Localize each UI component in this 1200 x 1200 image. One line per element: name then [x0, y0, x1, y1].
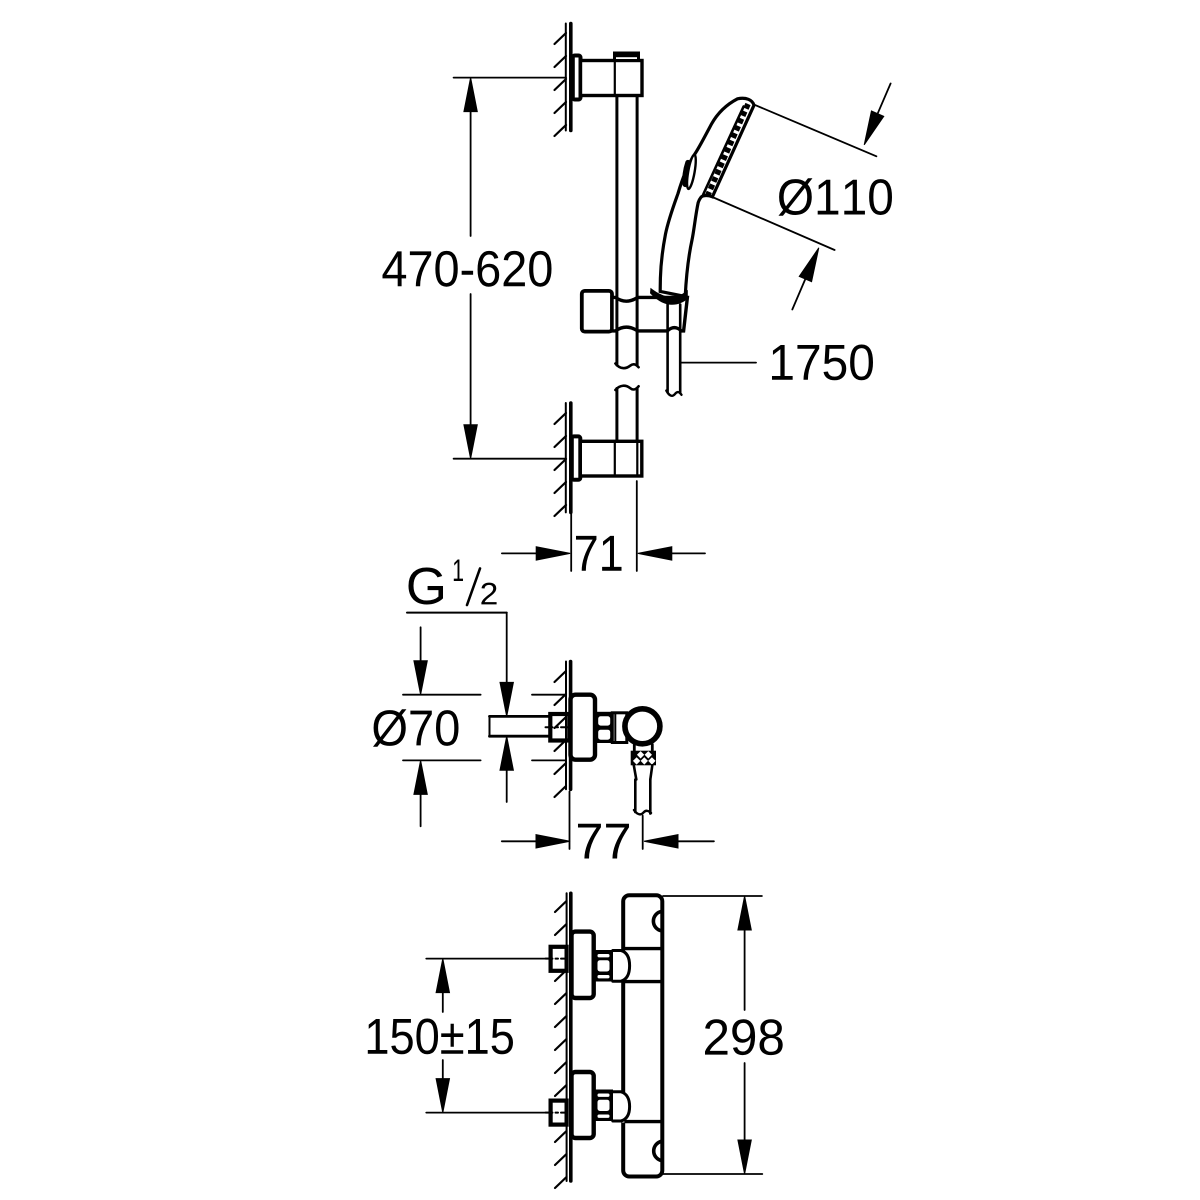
wall (thermostat) — [555, 893, 571, 1188]
elbow hex nut — [595, 712, 612, 743]
hose cone and hose — [634, 765, 653, 814]
rail top end cap — [615, 53, 639, 61]
shower spray nozzles — [708, 104, 748, 195]
leader 1750 (hose length) — [681, 362, 756, 364]
supply pipe behind wall — [490, 716, 567, 736]
thermostat body — [623, 895, 662, 1176]
lower wall bracket escutcheon — [572, 436, 581, 479]
label dia 70 — [373, 709, 458, 747]
elbow escutcheon flange — [571, 695, 596, 760]
lower wall bracket body — [580, 441, 642, 476]
holder cup (black) — [650, 288, 688, 305]
label 77 — [578, 824, 629, 859]
shower control button — [685, 154, 697, 189]
knob bump bottom — [654, 1141, 662, 1160]
shower face rim line — [703, 107, 743, 195]
body inlet boss lines — [624, 947, 662, 950]
wall (lower mount) — [555, 403, 571, 516]
wall (upper mount) — [555, 24, 571, 137]
knurled hose nut — [631, 751, 656, 766]
union hex top — [594, 950, 613, 982]
label G — [408, 567, 442, 604]
supply nipple bottom — [551, 1101, 567, 1125]
upper wall bracket escutcheon — [573, 56, 581, 100]
holder slider knob — [582, 291, 612, 332]
label sub 2 — [481, 583, 496, 605]
dimension 71 — [502, 481, 705, 571]
dimension 298 — [663, 896, 762, 1174]
hand shower body — [660, 98, 754, 296]
supply nipple top — [551, 947, 567, 971]
label G 1/2 — [0, 0, 1, 1]
shower hose upper — [666, 305, 681, 396]
elbow union body — [612, 713, 627, 743]
label 1750 — [772, 344, 873, 380]
dimension 150+-15 — [426, 959, 550, 1113]
label 150 +- 15 — [368, 1018, 513, 1054]
escutcheon top — [572, 932, 594, 998]
hose neck — [633, 745, 636, 751]
threaded nipple — [550, 714, 569, 741]
label 71 — [576, 536, 622, 571]
holder slider body — [612, 297, 687, 331]
wall (middle) — [555, 662, 571, 798]
dimension diameter 110 — [712, 84, 890, 310]
label 470-620 — [383, 251, 552, 287]
upper wall bracket body — [581, 61, 643, 96]
union dome bottom — [613, 1092, 630, 1121]
escutcheon bottom — [572, 1072, 594, 1138]
shower rail — [615, 96, 639, 475]
union hex bottom — [594, 1090, 613, 1122]
union dome top — [613, 951, 630, 982]
elbow ball joint — [625, 709, 660, 744]
dimension diameter 70 — [403, 627, 566, 826]
knob bump top — [653, 911, 661, 930]
label dia 110 — [778, 178, 891, 216]
dimension 77 — [502, 792, 714, 850]
label 298 — [705, 1019, 783, 1055]
dimension 470-620 — [454, 78, 566, 459]
label sup 1 — [454, 560, 463, 581]
